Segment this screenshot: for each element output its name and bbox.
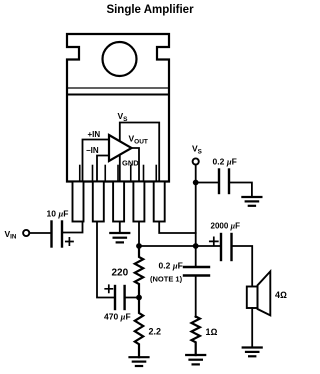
svg-text:VS: VS xyxy=(192,144,202,156)
node C junction dot xyxy=(136,295,142,301)
wire node D to C3 xyxy=(196,182,219,184)
capacitor C2 470uF plate right xyxy=(123,286,125,309)
svg-text:0.2 µF: 0.2 µF xyxy=(213,157,237,167)
op-amp U1 amplifier triangle xyxy=(109,135,132,161)
svg-text:VOUT: VOUT xyxy=(129,134,148,146)
svg-text:10 µF: 10 µF xyxy=(47,209,69,219)
pin 1 lead xyxy=(73,182,84,222)
speaker LS1 body xyxy=(247,287,258,309)
op-amp U1 mounting hole xyxy=(103,42,137,76)
svg-text:470 µF: 470 µF xyxy=(104,312,131,322)
input terminal VIN xyxy=(23,230,29,236)
resistor R1 220 xyxy=(135,246,143,298)
ground C3 xyxy=(242,197,261,206)
capacitor C3 0.2uF plate left xyxy=(218,170,220,194)
wire +IN internal to pin 1 to C1 xyxy=(62,140,109,233)
wire node B down to C5 xyxy=(195,246,197,267)
capacitor C5 0.2uF NOTE1 plate bottom xyxy=(184,274,209,276)
supply terminal VS xyxy=(193,158,199,164)
wire speaker to ground xyxy=(251,308,253,348)
svg-text:VS: VS xyxy=(118,111,129,123)
svg-text:2000 µF: 2000 µF xyxy=(211,222,241,231)
capacitor C1 10uF plate right xyxy=(61,222,63,247)
capacitor C2 470uF plate left xyxy=(114,286,116,309)
ground pin3 xyxy=(110,233,129,242)
capacitor C4 2000uF plate left xyxy=(220,234,222,260)
svg-text:1Ω: 1Ω xyxy=(206,327,218,337)
svg-text:−IN: −IN xyxy=(86,146,99,155)
ground R2 xyxy=(130,357,149,366)
node A junction dot xyxy=(136,243,142,249)
svg-text:(NOTE 1): (NOTE 1) xyxy=(150,275,183,284)
svg-text:2.2: 2.2 xyxy=(149,327,162,337)
svg-text:Single Amplifier: Single Amplifier xyxy=(106,4,194,16)
ground speaker xyxy=(243,348,262,357)
wire C3 to ground xyxy=(229,183,252,198)
wire GND internal to pin 3 xyxy=(119,155,121,233)
speaker LS1 cone xyxy=(258,271,271,315)
capacitor C1 10uF plate left xyxy=(50,222,52,247)
wire C5 to R3 xyxy=(195,276,197,318)
capacitor C3 0.2uF plate right xyxy=(228,170,230,194)
label plus C2 xyxy=(105,285,112,292)
svg-text:VIN: VIN xyxy=(5,229,17,241)
ground R3 xyxy=(186,355,205,364)
label plus C1 xyxy=(66,238,73,245)
wire C1 to VIN terminal xyxy=(29,232,51,234)
wire -IN internal to pin 2 down to C2 xyxy=(97,156,115,298)
resistor R2 2.2 xyxy=(135,298,143,358)
pin 4 lead xyxy=(133,182,144,222)
node D junction dot xyxy=(193,180,199,186)
svg-text:0.2 µF: 0.2 µF xyxy=(159,261,183,271)
pin 3 lead xyxy=(113,182,124,222)
capacitor C4 2000uF plate right xyxy=(230,234,232,260)
wire C2 to node C xyxy=(125,297,139,299)
svg-text:+IN: +IN xyxy=(88,130,101,139)
label plus C4 xyxy=(210,237,218,245)
pin 2 lead xyxy=(93,182,104,222)
pin 5 lead xyxy=(154,182,165,222)
op-amp U1 tab step line upper xyxy=(67,87,169,89)
wire VS terminal down to node B xyxy=(195,165,197,246)
wire VS internal to pin 5 xyxy=(120,123,196,234)
wire node B to C4 xyxy=(196,245,221,247)
op-amp U1 package TO-220 outline xyxy=(67,34,169,182)
wire C4 to speaker xyxy=(232,246,253,287)
node B junction dot xyxy=(193,243,199,249)
svg-text:4Ω: 4Ω xyxy=(275,290,287,300)
wire VOUT internal to pin 4 xyxy=(132,148,140,246)
op-amp U1 tab step line lower xyxy=(67,94,169,96)
lead shoulder separator lines xyxy=(80,166,157,182)
wire node A to node B xyxy=(139,245,196,247)
capacitor C5 0.2uF NOTE1 plate top xyxy=(184,266,209,268)
svg-text:220: 220 xyxy=(112,268,129,279)
resistor R3 1 ohm xyxy=(192,317,200,356)
